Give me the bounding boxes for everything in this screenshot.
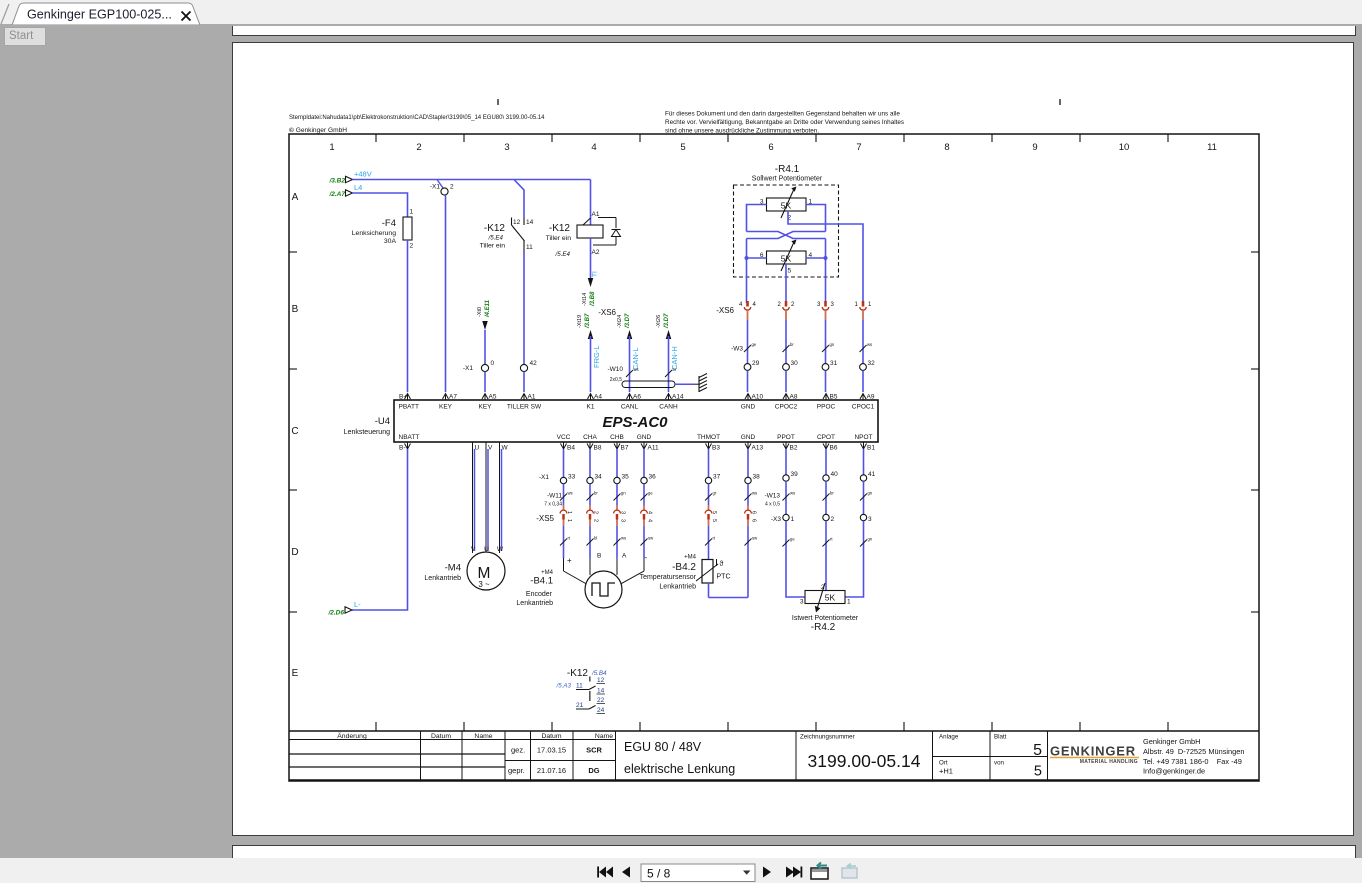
svg-text:Lenksteuerung: Lenksteuerung (344, 429, 390, 436)
svg-text:1: 1 (566, 511, 572, 514)
pin B6 (CPOT) bottom of U4 (823, 444, 829, 450)
crossover wires (747, 232, 826, 239)
svg-text:-X1: -X1 (430, 184, 441, 191)
wire VCC/CH A encoder lead (616, 449, 618, 477)
wire VCC/CH + encoder lead (563, 449, 565, 477)
svg-text:Änderung: Änderung (337, 732, 367, 740)
svg-text:7: 7 (856, 142, 861, 153)
svg-text:gn: gn (621, 491, 626, 496)
svg-text:8: 8 (944, 142, 949, 153)
svg-text:CPOC1: CPOC1 (852, 404, 875, 411)
wire NBATT B- to L- (352, 449, 408, 610)
pin B7 (CHB) bottom of U4 (614, 444, 620, 450)
last page button (786, 867, 794, 878)
potentiometer R4.2 Istwert Potentiometer 5K (805, 591, 845, 604)
svg-text:Lenkantrieb: Lenkantrieb (659, 584, 696, 591)
svg-text:/5.A3: /5.A3 (556, 683, 572, 690)
svg-text:3: 3 (620, 519, 626, 522)
svg-text:34: 34 (595, 474, 603, 481)
svg-text:-X3: -X3 (771, 516, 782, 523)
wire VCC/CH B encoder lead (589, 449, 591, 477)
svg-text:30: 30 (791, 360, 799, 367)
connector XS5 pin 5 (708, 505, 710, 510)
svg-text:-X1: -X1 (539, 474, 550, 481)
junction dots (745, 256, 749, 260)
svg-text:6: 6 (768, 142, 773, 153)
svg-text:B3: B3 (712, 445, 720, 452)
svg-text:E: E (292, 668, 299, 679)
svg-text:Stempldatei:Nahudata1\pb\Elekt: Stempldatei:Nahudata1\pb\Elektrokonstruk… (289, 115, 545, 121)
svg-text:/2.A7: /2.A7 (328, 191, 345, 198)
svg-text:41: 41 (868, 471, 876, 478)
pin A8 (CPOC2) top of U4 (783, 394, 789, 400)
svg-text:B7: B7 (621, 445, 629, 452)
svg-text:Istwert Potentiometer: Istwert Potentiometer (792, 615, 859, 622)
svg-text:1: 1 (847, 599, 851, 606)
svg-text:38: 38 (753, 474, 761, 481)
svg-text:/3.D7: /3.D7 (664, 313, 670, 329)
connector XS6 pin 4 (746, 301, 749, 307)
svg-text:-B4.1: -B4.1 (530, 576, 553, 587)
svg-text:+: + (567, 556, 572, 565)
svg-text:TI: TI (592, 271, 599, 277)
wire +48V to coil A1 (590, 180, 592, 226)
encoder leads into symbol (563, 558, 565, 571)
frame row ticks (289, 251, 297, 253)
svg-text:9: 9 (1032, 142, 1037, 153)
terminal X1:37 (705, 477, 711, 483)
svg-text:22: 22 (597, 697, 605, 704)
svg-text:bl: bl (594, 536, 597, 541)
svg-text:rt: rt (713, 536, 716, 541)
svg-text:CPOT: CPOT (817, 434, 835, 441)
svg-text:-X1: -X1 (463, 365, 474, 372)
svg-text:/5.E4: /5.E4 (488, 235, 504, 242)
connector XS5 pin 1 (563, 505, 565, 510)
svg-text:-XS5: -XS5 (536, 514, 554, 523)
svg-text:-Xt19: -Xt19 (577, 315, 583, 328)
terminal X1:29 (744, 364, 751, 371)
op-amp U4 controller box EPS-AC0 (394, 400, 878, 442)
svg-text:40: 40 (831, 471, 839, 478)
wire X1:2 to KEY A7 (445, 195, 447, 392)
svg-text:5: 5 (1034, 764, 1042, 780)
pin B4 (VCC) bottom of U4 (561, 444, 567, 450)
svg-text:GENKINGER: GENKINGER (1050, 744, 1136, 759)
svg-text:-W3: -W3 (731, 346, 743, 353)
svg-text:MATERIAL HANDLING: MATERIAL HANDLING (1080, 759, 1138, 765)
svg-text:sw: sw (648, 536, 654, 541)
pin B5 (PPOC) top of U4 (823, 394, 829, 400)
svg-text:17.03.15: 17.03.15 (537, 746, 566, 755)
previous page (4) bottom edge (232, 26, 1356, 36)
svg-text:gn: gn (868, 537, 873, 542)
svg-text:A14: A14 (672, 394, 684, 401)
svg-text:-K12: -K12 (484, 223, 506, 234)
svg-text:3: 3 (831, 302, 835, 308)
svg-text:br: br (594, 491, 598, 496)
svg-text:gez.: gez. (511, 746, 525, 755)
svg-text:A2: A2 (592, 249, 600, 256)
wire ge of cable W3 (747, 320, 749, 364)
svg-text:B4: B4 (567, 445, 575, 452)
svg-text:A13: A13 (752, 445, 764, 452)
wire br of cable W3 (785, 320, 787, 364)
svg-text:KEY: KEY (439, 404, 453, 411)
svg-text:ws: ws (867, 342, 872, 347)
svg-text:Genkinger EGP100-025...: Genkinger EGP100-025... (27, 8, 172, 22)
svg-text:/5.B4: /5.B4 (591, 670, 607, 677)
pin B+ (PBATT) top of U4 (405, 394, 411, 400)
svg-text:3: 3 (620, 511, 626, 514)
svg-text:4: 4 (753, 302, 757, 308)
svg-text:A: A (292, 192, 299, 203)
svg-text:NBATT: NBATT (399, 434, 420, 441)
svg-text:21: 21 (576, 702, 584, 709)
svg-text:-R4.1: -R4.1 (775, 164, 800, 175)
svg-text:rt: rt (830, 537, 833, 542)
svg-text:5: 5 (1033, 742, 1042, 759)
svg-text:2: 2 (791, 302, 795, 308)
title block (289, 730, 1259, 732)
svg-text:5: 5 (680, 142, 685, 153)
svg-text:A6: A6 (633, 394, 641, 401)
pin A7 (KEY) top of U4 (443, 394, 449, 400)
svg-text:CANH: CANH (659, 404, 678, 411)
svg-text:PBATT: PBATT (399, 404, 419, 411)
motor M4 Lenkantrieb 3~ (467, 552, 505, 590)
svg-text:EGU 80 / 48V: EGU 80 / 48V (624, 740, 702, 754)
pin A14 (CANH) top of U4 (666, 394, 672, 400)
svg-text:11: 11 (1207, 142, 1217, 153)
svg-text:42: 42 (530, 360, 538, 367)
svg-text:1: 1 (791, 516, 795, 523)
svg-text:+48V: +48V (354, 170, 372, 179)
svg-text:A11: A11 (648, 445, 659, 452)
svg-text:DG: DG (588, 766, 599, 775)
svg-text:B2: B2 (790, 445, 798, 452)
current page (5) (232, 42, 1354, 836)
svg-text:Name: Name (474, 733, 492, 740)
svg-text:Lenksicherung: Lenksicherung (352, 230, 396, 237)
wire B2 to pot pin 3 (786, 560, 805, 597)
svg-text:A7: A7 (449, 394, 457, 401)
svg-text:+M4: +M4 (684, 555, 697, 561)
svg-text:7 x 0,34: 7 x 0,34 (544, 502, 562, 508)
svg-text:A4: A4 (594, 394, 602, 401)
svg-text:ws: ws (752, 491, 757, 496)
svg-text:+H1: +H1 (939, 767, 953, 776)
pin B2 (PPOT) bottom of U4 (783, 444, 789, 450)
svg-text:Tel. +49 7381 186-0 Fax -49: Tel. +49 7381 186-0 Fax -49 (1143, 757, 1242, 766)
svg-text:Sollwert Potentiometer: Sollwert Potentiometer (752, 176, 823, 183)
svg-text:CPOC2: CPOC2 (775, 404, 798, 411)
terminal -X1:2 (437, 180, 443, 189)
svg-text:ws: ws (621, 536, 626, 541)
svg-text:31: 31 (830, 360, 838, 367)
svg-text:NPOT: NPOT (854, 434, 872, 441)
wire L4 to fuse F4 (353, 193, 408, 217)
svg-text:EPS-AC0: EPS-AC0 (602, 414, 668, 431)
svg-text:2: 2 (410, 243, 414, 250)
svg-text:L4: L4 (354, 183, 362, 192)
svg-text:/5.E4: /5.E4 (555, 251, 571, 258)
svg-text:L-: L- (354, 600, 361, 609)
svg-text:VCC: VCC (557, 434, 571, 441)
wire pot wiper 2 to CPOC1 (788, 211, 863, 303)
svg-text:© Genkinger GmbH: © Genkinger GmbH (289, 126, 347, 134)
Start tooltip (4, 27, 46, 46)
svg-text:2: 2 (593, 511, 599, 514)
centering marks (497, 99, 499, 105)
svg-text:Für dieses Dokument und den da: Für dieses Dokument und den darin darges… (665, 111, 900, 118)
svg-text:/3.B8: /3.B8 (590, 291, 596, 307)
svg-text:Name: Name (595, 733, 613, 740)
wire pot R4.1a pin 3 loop (747, 205, 767, 232)
svg-text:rt: rt (568, 536, 571, 541)
pin A11 (GND) bottom of U4 (641, 444, 647, 450)
svg-text:1: 1 (566, 519, 572, 522)
wire +48V branch to contact K12 (514, 180, 524, 218)
bottom navigation toolbar (0, 858, 1362, 883)
fuse F4 Lenksicherung 30A (407, 217, 409, 240)
pin B1 (NPOT) bottom of U4 (861, 444, 867, 450)
svg-text:5 / 8: 5 / 8 (647, 867, 671, 881)
svg-text:SCR: SCR (586, 746, 602, 755)
new window icon (disabled) (842, 868, 857, 878)
wire pot R4.1b pin 6 (747, 257, 767, 259)
svg-text:4 x 0,5: 4 x 0,5 (765, 502, 780, 508)
pin A5 (KEY) top of U4 (482, 394, 488, 400)
wire R4.1 to XS6 connectors (746, 258, 748, 303)
svg-text:GND: GND (637, 434, 652, 441)
svg-text:11: 11 (526, 244, 533, 251)
svg-text:-B4.2: -B4.2 (672, 562, 696, 573)
svg-text:U: U (484, 546, 489, 553)
svg-text:11: 11 (576, 683, 583, 690)
svg-text:4: 4 (591, 142, 596, 153)
next page (6) top edge (232, 845, 1356, 859)
svg-text:ge: ge (752, 342, 757, 347)
connector XS6 pin 3 (824, 301, 827, 307)
svg-text:Lenkantrieb: Lenkantrieb (516, 600, 553, 607)
pin A9 (CPOC1) top of U4 (860, 394, 866, 400)
wire +48V rail (353, 179, 591, 181)
svg-text:33: 33 (568, 474, 576, 481)
svg-text:B6: B6 (830, 445, 838, 452)
connector XS6 pin 1 (862, 301, 865, 307)
svg-text:Encoder: Encoder (526, 591, 553, 598)
thermistor B4.2 Temperatursensor Lenkantrieb PTC (702, 560, 713, 584)
potentiometer R4.1a 5K (767, 198, 807, 211)
svg-text:-W13: -W13 (764, 493, 780, 500)
svg-text:24: 24 (597, 707, 605, 714)
svg-text:10: 10 (1119, 142, 1130, 153)
svg-text:PPOT: PPOT (777, 434, 795, 441)
terminal X3:1 (783, 514, 789, 520)
svg-text:-K12: -K12 (549, 223, 571, 234)
terminal X1:31 (822, 364, 829, 371)
svg-text:V: V (471, 546, 476, 553)
svg-text:br: br (790, 342, 794, 347)
svg-text:0: 0 (491, 360, 495, 367)
svg-text:30A: 30A (384, 238, 397, 245)
svg-text:B5: B5 (830, 394, 838, 401)
svg-text:36: 36 (649, 474, 657, 481)
wire PPOT/CPOT/NPOT lead 39 (785, 449, 787, 475)
svg-text:2: 2 (416, 142, 421, 153)
svg-text:Info@genkinger.de: Info@genkinger.de (1143, 767, 1205, 776)
wire B1 to pot pin 1 (845, 560, 864, 597)
svg-text:4: 4 (647, 511, 653, 514)
svg-text:-R4.2: -R4.2 (811, 622, 836, 633)
svg-text:-F4: -F4 (382, 218, 396, 229)
pin A13 (GND) bottom of U4 (745, 444, 751, 450)
svg-text:gepr.: gepr. (508, 766, 525, 775)
wire PPOT/CPOT/NPOT lead 40 (825, 449, 827, 475)
wire VCC/CH - encoder lead (643, 449, 645, 477)
svg-text:3: 3 (800, 599, 804, 606)
svg-text:2: 2 (593, 519, 599, 522)
drawing frame border (289, 134, 1259, 781)
svg-text:4: 4 (739, 302, 743, 308)
svg-text:K1: K1 (587, 404, 595, 411)
svg-text:ws: ws (634, 367, 639, 372)
svg-text:Lenkantrieb: Lenkantrieb (424, 575, 461, 582)
pin B3 (THMOT) bottom of U4 (706, 444, 712, 450)
svg-text:PPOC: PPOC (817, 404, 836, 411)
svg-text:6: 6 (751, 519, 757, 522)
svg-text:3: 3 (868, 516, 872, 523)
suppressor diode across coil (598, 217, 616, 219)
svg-text:Zeichnungsnummer: Zeichnungsnummer (800, 734, 855, 741)
svg-text:35: 35 (622, 474, 630, 481)
svg-text:PTC: PTC (717, 574, 731, 581)
svg-text:-Xt24: -Xt24 (617, 315, 623, 328)
svg-text:-XS6: -XS6 (598, 308, 616, 317)
svg-text:1: 1 (329, 142, 334, 153)
svg-text:Tiller ein: Tiller ein (480, 243, 506, 250)
next page button (763, 867, 771, 878)
svg-text:br: br (830, 491, 834, 496)
terminal X1:32 (860, 364, 867, 371)
svg-text:B1: B1 (867, 445, 875, 452)
ground (shield earth) (698, 376, 700, 392)
svg-text:/3.B2: /3.B2 (328, 178, 345, 185)
terminal X1:38 (745, 477, 751, 483)
encoder B4.1 Encoder Lenkantrieb (585, 571, 622, 608)
first page button (599, 867, 606, 878)
svg-text:von: von (994, 760, 1005, 767)
svg-text:B8: B8 (594, 445, 602, 452)
svg-text:CHB: CHB (610, 434, 624, 441)
svg-text:elektrische Lenkung: elektrische Lenkung (624, 762, 735, 776)
wire GND A13 lead (747, 449, 749, 477)
svg-text:W: W (502, 445, 509, 452)
wire pot R4.1a pin 1 loop (806, 205, 826, 232)
svg-text:gn: gn (868, 491, 873, 496)
svg-text:Anlage: Anlage (939, 734, 959, 741)
svg-text:-K12: -K12 (567, 668, 589, 679)
wire ws of cable W3 (862, 320, 864, 364)
svg-text:Tiller ein: Tiller ein (546, 235, 572, 242)
svg-text:Temperatursensor: Temperatursensor (640, 574, 697, 581)
svg-text:/3.B7: /3.B7 (585, 313, 591, 329)
svg-text:3: 3 (504, 142, 509, 153)
wire PPOT/CPOT/NPOT lead 41 (863, 449, 865, 475)
svg-text:gr: gr (713, 491, 717, 496)
svg-text:Datum: Datum (431, 733, 451, 740)
pin B8 (CHA) bottom of U4 (587, 444, 593, 450)
svg-text:FRG-L: FRG-L (592, 346, 601, 369)
svg-text:ws: ws (790, 491, 795, 496)
svg-text:/4.E11: /4.E11 (485, 299, 491, 318)
svg-text:39: 39 (791, 471, 799, 478)
connector XS5 pin 2 (589, 505, 591, 510)
svg-text:2: 2 (831, 516, 835, 523)
svg-text:Albstr. 49 D-72525 Münsingen: Albstr. 49 D-72525 Münsingen (1143, 747, 1244, 756)
terminal -X1:0 (481, 364, 488, 371)
previous page button (622, 867, 630, 878)
wire B6 to pot pin 2 (825, 560, 827, 590)
pin A10 (GND) top of U4 (745, 394, 751, 400)
pin A6 (CANL) top of U4 (627, 394, 633, 400)
svg-text:-M4: -M4 (445, 563, 461, 574)
tab bar (0, 0, 1362, 24)
svg-text:5: 5 (711, 511, 717, 514)
wire shield to ground (675, 383, 694, 385)
svg-text:A: A (622, 553, 627, 560)
svg-text:5: 5 (788, 268, 792, 275)
svg-text:1: 1 (855, 302, 859, 308)
svg-text:3: 3 (817, 302, 821, 308)
svg-text:3 ~: 3 ~ (478, 580, 490, 589)
svg-text:1: 1 (868, 302, 872, 308)
svg-text:6: 6 (751, 511, 757, 514)
svg-text:TILLER SW: TILLER SW (507, 404, 542, 411)
svg-text:A9: A9 (867, 394, 875, 401)
svg-text:/3.D7: /3.D7 (625, 313, 631, 329)
svg-text:Datum: Datum (541, 733, 561, 740)
svg-text:ge: ge (648, 491, 653, 496)
svg-text:gn: gn (830, 342, 835, 347)
terminal X3:2 (823, 514, 829, 520)
pin B- (NBATT) bottom of U4 (405, 444, 411, 450)
svg-text:A10: A10 (752, 394, 764, 401)
svg-text:B-: B- (399, 445, 406, 452)
connector XS5 pin 4 (643, 505, 645, 510)
potentiometer R4.1b 5K (767, 251, 807, 264)
svg-text:Ort: Ort (939, 760, 948, 767)
terminal X3:3 (860, 514, 866, 520)
pin A1 (TILLER SW) top of U4 (521, 394, 527, 400)
new window icon (811, 868, 828, 879)
svg-text:29: 29 (752, 360, 760, 367)
svg-text:12: 12 (597, 677, 605, 684)
svg-text:5: 5 (711, 519, 717, 522)
svg-text:/2.D6: /2.D6 (327, 610, 344, 617)
wire coil A2 down, signal TI (590, 238, 592, 278)
svg-text:A5: A5 (489, 394, 497, 401)
svg-text:1: 1 (410, 209, 414, 216)
frame column ruler ticks (375, 134, 377, 142)
svg-text:CHA: CHA (583, 434, 597, 441)
svg-text:3199.00-05.14: 3199.00-05.14 (808, 751, 921, 771)
svg-text:-: - (645, 553, 648, 562)
svg-text:21.07.16: 21.07.16 (537, 766, 566, 775)
svg-text:KEY: KEY (478, 404, 492, 411)
svg-text:12: 12 (513, 219, 521, 226)
